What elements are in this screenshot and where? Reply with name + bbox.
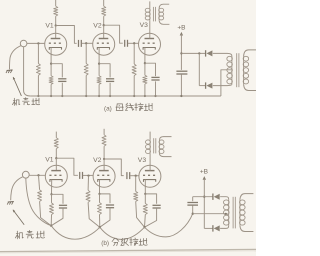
transformer T2 secondary winding bbox=[227, 56, 233, 61]
capacitor C6b filter (b) bbox=[187, 202, 198, 204]
wire D2 to T2 secondary bottom bbox=[213, 84, 232, 85]
input terminal J1b bbox=[22, 171, 29, 178]
wire input jack to stage-1 point curve bbox=[26, 178, 51, 226]
node stage-2 ground point bbox=[99, 226, 101, 228]
wire cathode junction to bypass cap C4b bbox=[100, 194, 111, 203]
arrowhead +B (a) bbox=[180, 32, 183, 36]
photo bottom edge shading bbox=[0, 249, 256, 251]
tube V3 (b) bbox=[139, 165, 161, 187]
wire T2b primary bottom lead bbox=[240, 225, 254, 231]
node R7 bus junction bbox=[133, 95, 135, 97]
capacitor C3 coupling bbox=[124, 40, 126, 47]
wire cathode junction to R3b bbox=[51, 194, 53, 203]
wire V3 cathode lead bbox=[144, 48, 146, 64]
wire cathode junction to bypass cap C2b bbox=[52, 194, 64, 203]
tube V1 (b) bbox=[45, 165, 67, 187]
wire R3 to bus bbox=[50, 84, 52, 96]
transformer T2b core bbox=[232, 197, 234, 229]
wire V2b plate lead bbox=[103, 159, 105, 171]
diode D2b bbox=[212, 225, 214, 231]
wire cathode junction to bypass cap C5b bbox=[145, 194, 156, 204]
wire stage-3 to supply ground curve bbox=[145, 214, 193, 237]
transformer T1b primary winding bbox=[146, 140, 151, 144]
wire V2b plate supply stub bbox=[103, 129, 105, 135]
resistor R7 grid V3 bbox=[132, 64, 136, 76]
resistor R2b grid V1 bbox=[38, 190, 42, 202]
transformer T1b core bbox=[153, 138, 155, 153]
resistor R6 cathode V2 bbox=[97, 76, 101, 85]
wire V1 plate supply from top edge bbox=[55, 0, 57, 6]
wire R3b to stage point bbox=[50, 215, 52, 226]
wire V3b plate lead to T1b bbox=[149, 154, 151, 171]
node R2 bus junction bbox=[37, 95, 39, 97]
svg-text:V3: V3 bbox=[138, 157, 147, 164]
node +B junction (b) bbox=[203, 196, 205, 198]
wire C1 to V2 grid bbox=[82, 42, 93, 44]
wire D2b to T2b secondary bottom bbox=[220, 225, 229, 228]
capacitor C1 coupling bbox=[78, 40, 80, 47]
wire V3 grid junction to R7 bbox=[133, 43, 135, 64]
svg-text:V3: V3 bbox=[140, 22, 149, 29]
capacitor C5b bypass V3 bbox=[153, 204, 161, 206]
node V1b grid junction bbox=[37, 174, 39, 176]
wire V1b grid junction to R2b bbox=[39, 175, 40, 190]
node C4 bus junction bbox=[109, 95, 111, 97]
wire T1 secondary bottom lead bbox=[159, 20, 169, 24]
diode D2 bbox=[205, 82, 207, 88]
svg-text:(a): (a) bbox=[104, 105, 112, 112]
transformer T2 core bbox=[236, 53, 238, 87]
capacitor C2b bypass V1 bbox=[59, 204, 67, 206]
wire V1 grid junction to R2 bbox=[37, 43, 39, 63]
wire V1 cathode junction to R3 bbox=[50, 64, 52, 76]
resistor R7b grid V3 bbox=[134, 191, 138, 201]
resistor R8 cathode V3 bbox=[143, 75, 147, 84]
node V2 cathode junction bbox=[98, 63, 100, 65]
capacitor C1b coupling bbox=[79, 172, 81, 179]
node V2 plate junction bbox=[103, 24, 105, 26]
wire C6b top lead bbox=[192, 197, 194, 202]
svg-text:V1: V1 bbox=[45, 23, 54, 30]
input terminal J1 bbox=[20, 40, 27, 47]
transformer T1 primary lead to top edge bbox=[149, 1, 151, 8]
wire V2 grid junction to R5 bbox=[85, 43, 87, 63]
capacitor C4 bypass V2 bbox=[106, 78, 114, 80]
capacitor C4b bypass V2 bbox=[106, 204, 114, 206]
label 机壳地 (b) bbox=[15, 231, 23, 239]
capacitor C5 bypass V3 bbox=[151, 76, 159, 78]
arrowhead +B (b) bbox=[203, 176, 206, 180]
wire cathode junction to R8b bbox=[144, 194, 146, 204]
wire V1b plate to coupling cap C1b bbox=[56, 158, 78, 175]
wire C1b to V2b grid bbox=[83, 174, 94, 176]
wire V3b cathode lead bbox=[144, 180, 146, 194]
wire C3b to V3b grid bbox=[130, 175, 139, 177]
wire T2b primary top lead bbox=[240, 194, 254, 200]
node +B bus junction bbox=[180, 95, 182, 97]
node V3 cathode junction bbox=[144, 62, 146, 64]
resistor R5 grid V2 bbox=[84, 64, 88, 76]
node V1 cathode junction bbox=[50, 63, 52, 65]
wire D1b to T2b secondary top bbox=[220, 197, 229, 200]
wire R7 to bus bbox=[133, 76, 135, 96]
wire +B to C6b and D1b bbox=[193, 196, 213, 198]
transformer T2b primary winding bbox=[240, 200, 246, 205]
capacitor C2 bypass V1 bbox=[58, 78, 66, 80]
transformer T1 core bbox=[152, 7, 154, 22]
wire +B rail upper bbox=[180, 34, 182, 70]
node R3 bus junction bbox=[50, 95, 52, 97]
wire R4b to plate node bbox=[103, 146, 105, 159]
node V1b plate junction bbox=[55, 157, 57, 159]
wire C2b to stage point bbox=[51, 208, 63, 226]
label 机壳地 (a) bbox=[12, 98, 19, 105]
wire R6b to stage point bbox=[99, 215, 101, 228]
node V3b grid junction bbox=[135, 175, 137, 177]
wire cathode junction to R6b bbox=[99, 194, 101, 203]
capacitor C3b coupling bbox=[126, 172, 128, 179]
wire C5 to bus bbox=[155, 81, 157, 96]
wire C6b bottom lead bbox=[192, 205, 194, 213]
resistor R4 plate load V2 bbox=[102, 6, 106, 16]
svg-text:V1: V1 bbox=[45, 157, 54, 164]
wire T1 secondary top lead bbox=[159, 4, 169, 8]
node C5 bus junction bbox=[154, 95, 156, 97]
node V2b plate junction bbox=[103, 158, 105, 160]
wire C6 to bus bbox=[180, 74, 182, 96]
wire C4b to stage point bbox=[100, 208, 110, 228]
node V1 plate junction bbox=[55, 24, 57, 26]
wire input to V1b grid bbox=[29, 174, 45, 176]
capacitor C6 filter (a) bbox=[176, 70, 187, 72]
arrow to chassis ground (a) bbox=[13, 77, 21, 96]
wire cathode junction to bypass cap C2 bbox=[51, 64, 62, 78]
wire D1 to T2 secondary top bbox=[213, 53, 232, 56]
transformer T1 primary winding bbox=[145, 8, 150, 12]
wire V3 cathode junction to R8 bbox=[144, 63, 146, 75]
diode D1 bbox=[205, 50, 207, 56]
node V1 grid junction bbox=[37, 42, 39, 44]
transformer T1 secondary winding bbox=[159, 8, 164, 12]
node R8 bus junction bbox=[144, 95, 146, 97]
wire T2 primary top lead bbox=[244, 50, 256, 56]
wire T1b secondary bottom lead bbox=[159, 154, 171, 157]
wire V1b plate supply stub bbox=[55, 132, 57, 138]
wire T1b secondary top lead bbox=[159, 137, 171, 140]
wire V1 cathode lead bbox=[50, 48, 52, 64]
node C2 bus junction bbox=[61, 95, 63, 97]
wire input jack down to bus bbox=[24, 47, 31, 96]
resistor R5b grid V2 bbox=[86, 190, 90, 202]
chassis ground symbol (b) bbox=[8, 201, 14, 204]
wire input to V1 grid bbox=[27, 42, 45, 44]
wire R8b to stage point bbox=[144, 215, 147, 228]
node V3b cathode junction bbox=[144, 193, 146, 195]
wire V2 cathode junction to R6 bbox=[98, 64, 100, 76]
wire stage-2 to stage-3 ground curve bbox=[100, 227, 145, 239]
wire C5b to stage point bbox=[145, 208, 157, 227]
resistor R6b cathode V2 bbox=[98, 203, 102, 215]
wire V1 plate to coupling cap C1 bbox=[56, 26, 77, 44]
resistor R4b plate load V2 bbox=[102, 135, 106, 146]
node rectifier common junction bbox=[198, 52, 200, 54]
svg-text:V2: V2 bbox=[93, 23, 102, 30]
tube V3 bbox=[139, 33, 161, 55]
wire C4 to bus bbox=[109, 83, 111, 96]
svg-text:(b): (b) bbox=[101, 240, 109, 247]
wire cathode junction to bypass cap C4 bbox=[99, 64, 110, 78]
transformer T2 primary winding bbox=[243, 56, 249, 61]
wire cathode junction to bypass cap C5 bbox=[145, 63, 156, 76]
svg-text:+B: +B bbox=[200, 168, 208, 175]
wire R1 to V1 plate node bbox=[55, 16, 57, 25]
wire V2 plate lead bbox=[103, 25, 105, 38]
node V2 grid junction bbox=[85, 42, 87, 44]
node V1b cathode junction bbox=[50, 193, 52, 195]
tube V2 (b) bbox=[93, 165, 115, 187]
wire V2 plate to coupling cap C3 bbox=[104, 25, 123, 43]
wire rectifier riser bbox=[198, 53, 200, 85]
wire R1b to plate node bbox=[55, 149, 57, 159]
node center tap junction bbox=[225, 213, 227, 215]
wire R8 to bus bbox=[144, 84, 146, 96]
wire T2 center tap to bus bbox=[221, 70, 232, 96]
node stage-1 ground point bbox=[50, 225, 52, 227]
resistor R1b plate load V1 bbox=[54, 138, 58, 149]
wire +B to rectifier D1 bbox=[181, 52, 205, 54]
wire R2b to stage point bbox=[40, 201, 52, 225]
arrow to chassis ground (b) bbox=[13, 210, 24, 225]
wire stage-1 to stage-2 ground curve bbox=[51, 226, 100, 240]
wire R7b to stage point bbox=[136, 201, 145, 227]
node V2b cathode junction bbox=[98, 193, 100, 195]
node V2b grid junction bbox=[87, 174, 89, 176]
wire R5 to bus bbox=[85, 75, 87, 96]
svg-text:V2: V2 bbox=[93, 157, 102, 164]
wire D2b feed bbox=[204, 227, 213, 229]
tube V2 bbox=[93, 33, 115, 55]
node stage-3 ground point bbox=[143, 226, 145, 228]
wire R5b to stage point bbox=[88, 202, 100, 227]
ground bus (a) bbox=[30, 95, 221, 97]
resistor R2 grid V1 bbox=[36, 64, 40, 76]
wire center tap (b) bbox=[193, 213, 228, 215]
wire C3 to V3 grid bbox=[128, 42, 139, 44]
tube V1 bbox=[45, 33, 67, 55]
wire V2b grid junction to R5b bbox=[87, 176, 89, 191]
wire V3b grid junction to R7b bbox=[135, 176, 137, 192]
resistor R3b cathode V1 bbox=[50, 203, 54, 215]
wire T2 primary bottom lead bbox=[244, 84, 256, 90]
wire input jack to chassis ground curve (b) bbox=[11, 177, 23, 201]
wire riser to D2 bbox=[199, 85, 205, 87]
wire V3 plate lead to T1 bbox=[149, 20, 151, 38]
node V3 grid junction bbox=[133, 42, 135, 44]
resistor R3 cathode V1 bbox=[49, 76, 53, 85]
transformer T1b secondary winding bbox=[159, 140, 164, 144]
chassis ground symbol (a) bbox=[7, 69, 13, 72]
wire V2 cathode lead bbox=[98, 48, 100, 64]
resistor R1 plate load V1 bbox=[54, 6, 58, 16]
node +B junction bbox=[180, 52, 182, 54]
wire V2b cathode lead bbox=[99, 180, 101, 194]
transformer T1b primary lead bbox=[149, 132, 151, 140]
wire V2b plate to coupling cap C3b bbox=[104, 159, 124, 176]
wire V1 plate lead bbox=[55, 26, 57, 39]
wire R2 to ground bus bbox=[37, 75, 39, 96]
node R5 bus junction bbox=[85, 95, 87, 97]
wire R4 to V2 plate node bbox=[103, 16, 105, 25]
node supply ground junction (b) bbox=[192, 213, 194, 215]
wire C2 to bus bbox=[61, 83, 63, 96]
wire input jack to chassis ground curve bbox=[10, 46, 22, 70]
svg-text:+B: +B bbox=[177, 24, 185, 31]
diode D1b bbox=[212, 194, 214, 200]
wire R6 to bus bbox=[98, 84, 100, 96]
node R6 bus junction bbox=[98, 95, 100, 97]
wire +B rail (b) bbox=[203, 179, 205, 229]
resistor R8b cathode V3 bbox=[143, 203, 147, 214]
wire V1b cathode lead bbox=[51, 180, 53, 195]
wire V1b plate lead bbox=[55, 158, 57, 170]
wire V2 plate supply from top edge bbox=[103, 0, 105, 6]
transformer T2b secondary winding bbox=[224, 200, 230, 205]
